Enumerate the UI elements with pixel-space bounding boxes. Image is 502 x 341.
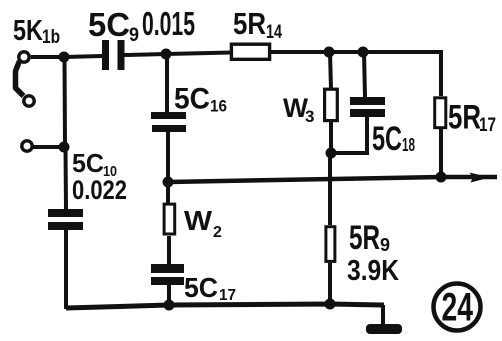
wire switch to node A: [31, 55, 64, 59]
wire C16 to node F: [166, 132, 170, 182]
svg-text:5C: 5C: [88, 6, 130, 43]
output wire with arrow: [168, 177, 497, 182]
svg-text:3: 3: [305, 107, 314, 126]
wire node H to C10: [64, 147, 69, 209]
node E: [436, 172, 447, 183]
node J: [325, 299, 336, 310]
svg-text:1b: 1b: [42, 27, 60, 48]
node F: [163, 177, 174, 188]
svg-text:5K: 5K: [13, 15, 43, 47]
switch S1 terminal 2: [24, 96, 34, 106]
node G: [164, 300, 175, 311]
switch S1 terminal 1: [19, 52, 29, 62]
svg-text:9: 9: [129, 25, 139, 46]
node D: [358, 47, 369, 58]
svg-text:24: 24: [442, 286, 474, 330]
svg-text:5R: 5R: [349, 219, 380, 257]
node A: [59, 52, 70, 63]
wire node B down to C16: [165, 54, 169, 113]
page badge circle 24: [434, 284, 481, 331]
svg-text:3.9K: 3.9K: [347, 255, 399, 287]
wire node A to C9: [64, 56, 102, 57]
capacitor 5C17 plates: [151, 264, 184, 285]
svg-text:2: 2: [213, 224, 222, 241]
wire node I down to R9: [328, 153, 332, 225]
node I: [326, 148, 337, 159]
switch S1 terminal 3: [22, 141, 32, 151]
svg-text:5R: 5R: [233, 6, 266, 41]
svg-text:5R: 5R: [448, 99, 481, 137]
svg-text:17: 17: [479, 115, 496, 136]
node C: [324, 47, 335, 58]
switch S1 arm wire: [16, 61, 24, 96]
node H: [59, 142, 70, 153]
left vertical wire: [63, 57, 68, 147]
wire node C down to W3: [330, 52, 331, 89]
wire W2 to C17: [167, 236, 171, 265]
svg-text:5C: 5C: [184, 272, 218, 303]
svg-text:17: 17: [219, 287, 236, 304]
wire switch terminal 3 stub: [32, 145, 64, 149]
capacitor 5C16 plates: [151, 112, 186, 132]
svg-text:16: 16: [210, 97, 227, 116]
capacitor C9 plates: [102, 40, 125, 70]
resistor W2: [164, 204, 175, 234]
svg-text:5C: 5C: [174, 83, 210, 116]
ground: [366, 324, 402, 334]
wire C9 to node B: [125, 54, 167, 55]
resistor 5R17: [435, 98, 446, 128]
wire C17 to node G: [167, 285, 171, 305]
wire W3 to node I: [329, 121, 333, 153]
svg-text:0.022: 0.022: [72, 175, 127, 205]
node B: [161, 49, 172, 60]
svg-text:18: 18: [402, 135, 415, 155]
svg-text:9: 9: [380, 235, 390, 255]
resistor 5R9: [326, 227, 335, 262]
wire node F to W2: [166, 182, 170, 203]
svg-text:0.015: 0.015: [142, 5, 195, 42]
wire to ground: [381, 305, 385, 325]
svg-text:W: W: [184, 205, 213, 236]
bottom wire: [66, 304, 384, 308]
wire C10 down to bottom: [64, 230, 68, 309]
svg-text:5C: 5C: [72, 148, 104, 178]
svg-text:14: 14: [266, 22, 282, 43]
wire C18 to node I: [331, 117, 367, 153]
wire R14 to corner and down to R17: [271, 52, 441, 96]
resistor W3: [325, 89, 338, 120]
capacitor 5C18 plates: [350, 97, 385, 117]
svg-text:5C: 5C: [372, 120, 402, 158]
arrowhead: [470, 173, 491, 183]
wire R9 to node J: [328, 263, 332, 304]
capacitor 5C10 plates: [48, 209, 83, 230]
wire node D down to C18: [364, 52, 365, 97]
resistor 5R14: [231, 44, 269, 59]
wire R17 to node E: [439, 129, 443, 177]
wire node B to R14: [166, 53, 231, 55]
